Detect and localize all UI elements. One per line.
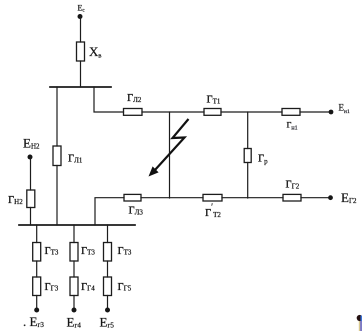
- wire between rT3 and rG4: [73, 261, 75, 277]
- node EG2 terminal dot: [328, 195, 333, 200]
- svg-text:Ec: Ec: [78, 4, 86, 14]
- svg-text:EГ2: EГ2: [341, 190, 357, 205]
- svg-text:EН2: EН2: [23, 136, 40, 151]
- wire between rT3 and rG5: [107, 261, 109, 277]
- svg-text:гр: гр: [258, 150, 268, 166]
- node Eg3 terminal dot: [34, 308, 39, 313]
- resistor rT1: [204, 109, 221, 116]
- wire rH2 to lower bus: [30, 208, 32, 226]
- svg-text:гЛ2: гЛ2: [127, 89, 142, 105]
- svg-text:гГ4: гГ4: [81, 278, 95, 294]
- svg-text:гГ2: гГ2: [286, 176, 300, 192]
- wire gen branch 2 upper: [73, 225, 75, 243]
- svg-text:гН2: гН2: [8, 191, 23, 207]
- upper bus: [50, 86, 111, 88]
- reactor Xv: [77, 42, 85, 61]
- wire rn1 to En1: [300, 111, 331, 113]
- resistor rL1: [53, 146, 61, 166]
- lower bus: [19, 224, 135, 226]
- fault lightning arrow: [155, 119, 189, 171]
- svg-text:гГ3: гГ3: [45, 278, 59, 294]
- svg-text:гТ1: гТ1: [207, 91, 221, 107]
- wire between rT3 and rG3: [36, 261, 38, 277]
- resistor rn1: [282, 109, 300, 116]
- resistor rT3 branch1: [33, 243, 41, 262]
- svg-text:Xв: Xв: [89, 44, 101, 60]
- svg-text:гЛ3: гЛ3: [129, 202, 144, 218]
- wire upper bus riser to top feeder: [94, 87, 124, 112]
- node EH2 terminal dot: [28, 155, 33, 160]
- scan artifact bottom right: [357, 315, 362, 331]
- wire gen branch 3 upper: [107, 225, 109, 243]
- svg-text:Eг5: Eг5: [100, 315, 115, 330]
- wire Xv to upper bus: [80, 61, 82, 87]
- node Eg5 terminal dot: [105, 308, 110, 313]
- node Eg4 terminal dot: [72, 308, 77, 313]
- resistor rG2: [283, 194, 301, 201]
- resistor rG4: [70, 277, 78, 296]
- svg-text:гТ3: гТ3: [81, 242, 95, 258]
- svg-text:Eн1: Eн1: [339, 103, 350, 116]
- wire rG3 to Eg3: [36, 296, 38, 311]
- resistor rT2: [203, 194, 222, 201]
- svg-text:г′Т2: г′Т2: [205, 202, 221, 220]
- svg-text:Eг4: Eг4: [67, 315, 82, 330]
- wire EH2 to rH2: [30, 157, 32, 190]
- wire rp branch upper: [247, 112, 249, 149]
- fault arrowhead: [149, 166, 159, 176]
- resistor rT3 branch3: [104, 243, 112, 262]
- wire rL2 to rT1: [142, 111, 204, 113]
- wire rT1 to rn1: [221, 111, 282, 113]
- svg-text:гГ5: гГ5: [118, 278, 132, 294]
- resistor rT3 branch2: [70, 243, 78, 262]
- wire rG5 to Eg5: [107, 296, 109, 311]
- svg-text:гТ3: гТ3: [45, 242, 59, 258]
- node En1 terminal dot: [329, 110, 334, 115]
- resistor rH2: [27, 190, 35, 208]
- resistor rp: [244, 149, 251, 163]
- wire rp branch lower: [247, 163, 249, 199]
- wire rL1 to lower bus: [56, 166, 58, 226]
- wire gen branch 1 upper: [36, 225, 38, 243]
- resistor rG5: [104, 277, 112, 296]
- svg-text:гн1: гн1: [287, 117, 298, 132]
- wire Ec to Xv: [80, 17, 82, 43]
- wire fault branch vertical: [169, 112, 171, 198]
- wire rT2 to rG2: [222, 197, 283, 199]
- svg-text:гЛ1: гЛ1: [68, 150, 83, 166]
- svg-text:. Eг3: . Eг3: [23, 314, 44, 329]
- wire rL3 to rT2: [141, 197, 203, 199]
- resistor rL2: [124, 109, 143, 116]
- resistor rL3: [124, 194, 141, 201]
- wire rG4 to Eg4: [73, 296, 75, 311]
- node Ec terminal dot: [78, 14, 83, 19]
- resistor rG3: [33, 277, 41, 296]
- svg-text:гТ3: гТ3: [118, 242, 132, 258]
- wire upper bus to line L1: [56, 87, 58, 146]
- wire lower feeder riser: [95, 198, 124, 225]
- wire rG2 to EG2: [301, 197, 331, 199]
